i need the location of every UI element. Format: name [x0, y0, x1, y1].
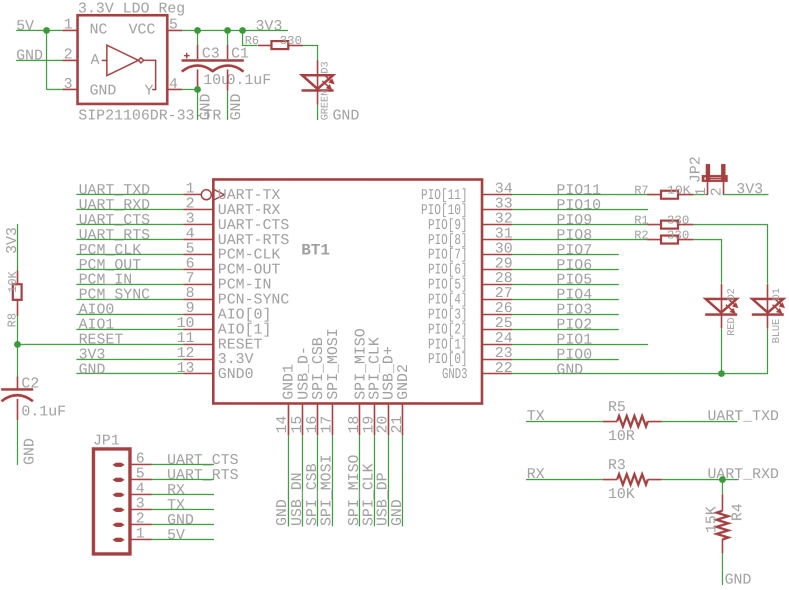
connector JP1 pin 1 stub	[130, 538, 152, 540]
svg-text:GND3: GND3	[442, 367, 468, 383]
capacitor C3 top plate	[182, 59, 214, 62]
IC BT1 pin 20 stub	[387, 403, 389, 435]
resistor R5 zigzag	[617, 416, 648, 426]
IC U3 regulator body	[78, 15, 168, 104]
wire 3V3 to R6	[243, 30, 258, 45]
svg-text:PIO2: PIO2	[556, 318, 592, 334]
svg-text:SPI_CSB: SPI_CSB	[305, 463, 321, 526]
svg-text:SPI_CSB: SPI_CSB	[311, 337, 327, 400]
IC BT1 pin 22 stub	[482, 373, 512, 375]
svg-text:5: 5	[186, 241, 195, 257]
svg-text:TX: TX	[527, 409, 545, 425]
capacitor C3 top lead	[197, 45, 199, 59]
LED D2 arrow 1	[728, 299, 735, 305]
svg-text:2: 2	[186, 196, 195, 212]
resistor R4 top lead	[721, 494, 723, 510]
svg-text:8: 8	[186, 286, 195, 302]
svg-text:UART_RXD: UART_RXD	[79, 198, 151, 214]
wire net SPI_CLK pin 19	[373, 435, 375, 526]
wire 5V to junction	[16, 29, 62, 31]
wire net PIO1 row 24	[512, 344, 648, 346]
svg-text:GND: GND	[22, 438, 38, 465]
wire C3 to GND	[197, 86, 199, 120]
capacitor C2 curved plate	[1, 395, 32, 401]
wire net GND pin 21	[401, 435, 403, 526]
resistor R8 top lead	[17, 270, 19, 284]
wire net PIO10 row 33	[512, 209, 648, 211]
svg-text:PCM_SYNC: PCM_SYNC	[79, 288, 151, 304]
svg-text:AIO[0]: AIO[0]	[218, 307, 272, 323]
IC BT1 pin 16 stub	[316, 403, 318, 435]
svg-text:USB_DN: USB_DN	[290, 472, 306, 526]
junction C1 top	[224, 27, 231, 34]
svg-text:3V3: 3V3	[736, 182, 763, 198]
wire net PCM_CLK	[76, 253, 183, 255]
svg-text:Y: Y	[145, 83, 154, 99]
junction R6 branch	[239, 27, 246, 34]
wire R6 to D3	[303, 45, 318, 60]
svg-text:0.1uF: 0.1uF	[21, 404, 66, 420]
wire net USB_DP pin 20	[387, 435, 389, 526]
resistor R7 body	[661, 191, 678, 199]
svg-text:PCM_OUT: PCM_OUT	[79, 258, 142, 274]
svg-text:GREEN: GREEN	[321, 90, 332, 121]
IC BT1 pin 1 clock mark	[213, 189, 224, 200]
svg-text:JP1: JP1	[93, 434, 120, 450]
IC U3 pin 2 stub	[63, 59, 78, 61]
wire net PIO4 row 27	[512, 299, 619, 301]
LED D2 bottom lead	[720, 314, 722, 328]
connector JP1 pad 1	[112, 538, 124, 542]
resistor R4 bottom lead	[721, 539, 723, 553]
wire C1 top	[227, 30, 229, 45]
IC BT1 pin 1 inverter circle	[201, 190, 211, 200]
svg-text:AIO0: AIO0	[79, 302, 115, 318]
capacitor C3 bottom lead	[197, 69, 199, 86]
svg-text:10K: 10K	[667, 184, 691, 198]
svg-text:AIO1: AIO1	[79, 317, 115, 333]
svg-text:PIO9: PIO9	[556, 213, 592, 229]
IC BT1 pin 6 stub	[183, 268, 213, 270]
wire net SPI_MOSI pin 17	[331, 435, 333, 526]
resistor R6 body	[271, 41, 288, 49]
svg-text:6: 6	[186, 256, 195, 272]
wire C2 to GND	[16, 420, 18, 465]
connector JP1 pad 5	[112, 478, 124, 482]
IC BT1 pin 19 stub	[373, 403, 375, 435]
svg-text:5V: 5V	[16, 19, 34, 35]
LED D2 top lead	[720, 284, 722, 299]
LED D1 arrow 2	[772, 305, 779, 311]
svg-text:PIO[1]: PIO[1]	[428, 337, 468, 353]
svg-text:3V3: 3V3	[5, 227, 21, 254]
IC BT1 pin 3 stub	[183, 223, 213, 225]
svg-text:R6: R6	[245, 34, 259, 48]
resistor R8 body	[13, 284, 22, 300]
svg-text:UART-RX: UART-RX	[218, 203, 281, 219]
svg-text:30: 30	[495, 241, 513, 257]
resistor R5 right lead	[648, 421, 662, 423]
svg-text:4: 4	[186, 226, 195, 242]
svg-text:GND: GND	[167, 513, 194, 529]
svg-text:PIO[8]: PIO[8]	[428, 233, 468, 249]
LED D3 triangle	[302, 75, 333, 89]
LED D2 cathode bar	[705, 313, 737, 316]
wire net AIO0	[76, 313, 183, 315]
wire net UART_CTS JP1	[152, 463, 214, 465]
svg-text:3V3: 3V3	[79, 347, 106, 363]
wire D3 to GND	[317, 104, 319, 120]
IC BT1 pin 30 stub	[482, 254, 512, 256]
wire net PIO0 row 23	[512, 359, 619, 361]
svg-text:22: 22	[495, 361, 513, 377]
IC U3 pin 5 stub	[167, 29, 182, 31]
junction 5V node	[43, 27, 50, 34]
wire net GND pin 14	[287, 435, 289, 526]
svg-text:PCM_IN: PCM_IN	[79, 273, 133, 289]
capacitor C1 curved plate	[212, 66, 243, 72]
IC BT1 pin 15 stub	[301, 403, 303, 435]
connector JP1 pin 3 stub	[130, 508, 152, 510]
svg-text:13: 13	[177, 361, 195, 377]
svg-text:UART_TXD: UART_TXD	[707, 409, 779, 425]
svg-text:R1: R1	[634, 214, 648, 228]
svg-text:A: A	[91, 53, 100, 69]
wire net GND JP1	[152, 523, 214, 525]
wire net SPI_CSB pin 16	[316, 435, 318, 526]
capacitor C2 top lead	[16, 376, 18, 388]
wire net PIO6 row 29	[512, 269, 619, 271]
svg-text:PCM_CLK: PCM_CLK	[79, 243, 142, 259]
wire net USB_DN pin 15	[301, 435, 303, 526]
svg-text:330: 330	[280, 34, 302, 48]
svg-text:RESET: RESET	[218, 337, 263, 353]
svg-text:25: 25	[495, 316, 513, 332]
IC BT1 pin 1 stub	[183, 193, 201, 195]
connector JP2 pad 2	[721, 164, 725, 182]
LED D2 arrow 2	[726, 305, 733, 311]
connector JP1 pin 6 stub	[130, 463, 152, 465]
resistor R7 left lead	[647, 194, 661, 196]
junction UART_RXD node	[719, 476, 726, 483]
wire net UART_RTS	[76, 238, 183, 240]
LED D1 bottom lead	[766, 314, 768, 328]
svg-text:16: 16	[305, 416, 321, 434]
svg-text:27: 27	[495, 286, 513, 302]
svg-text:PIO11: PIO11	[556, 183, 601, 199]
svg-text:RX: RX	[167, 483, 185, 499]
svg-text:5: 5	[136, 466, 145, 482]
svg-text:4: 4	[136, 481, 145, 497]
wire net SPI_MISO pin 18	[358, 435, 360, 526]
svg-text:D1: D1	[772, 288, 783, 300]
svg-text:PIO10: PIO10	[556, 198, 601, 214]
IC BT1 pin 25 stub	[482, 329, 512, 331]
IC U3 pin 4 stub	[167, 88, 182, 90]
resistor R4 zigzag	[717, 511, 729, 540]
capacitor C2 bottom lead	[16, 399, 18, 420]
svg-text:GND: GND	[199, 93, 215, 120]
svg-text:PIO7: PIO7	[556, 243, 592, 259]
IC BT1 pin 4 stub	[183, 238, 213, 240]
svg-text:15: 15	[290, 416, 306, 434]
svg-text:3V3: 3V3	[256, 19, 283, 35]
LED D1 arrow 1	[775, 299, 782, 305]
junction C3 top	[194, 27, 201, 34]
IC BT1 pin 32 stub	[482, 224, 512, 226]
svg-text:9: 9	[186, 301, 195, 317]
svg-text:0.1uF: 0.1uF	[227, 73, 272, 89]
resistor R8 bottom lead	[16, 300, 18, 316]
svg-text:PCM-CLK: PCM-CLK	[218, 248, 281, 264]
IC BT1 pin 10 stub	[183, 328, 213, 330]
svg-text:33: 33	[495, 197, 513, 213]
svg-text:R7: R7	[634, 184, 648, 198]
resistor R1 body	[661, 221, 678, 229]
svg-text:10: 10	[177, 316, 195, 332]
wire net PCM_OUT	[76, 268, 183, 270]
LED D3 arrow 2	[322, 81, 329, 87]
svg-text:24: 24	[495, 331, 513, 347]
wire R3 to UART_RXD	[661, 479, 738, 481]
svg-text:D3: D3	[321, 61, 332, 73]
svg-text:PIO5: PIO5	[556, 273, 592, 289]
svg-text:PIO[3]: PIO[3]	[428, 307, 468, 323]
wire net PIO9 row 32	[512, 224, 647, 226]
svg-text:VCC: VCC	[129, 22, 156, 38]
svg-text:RED: RED	[727, 317, 738, 335]
svg-text:UART_CTS: UART_CTS	[79, 213, 151, 229]
svg-text:PCM-IN: PCM-IN	[218, 278, 272, 294]
IC BT1 pin 29 stub	[482, 269, 512, 271]
svg-text:GND0: GND0	[218, 367, 254, 383]
svg-text:BT1: BT1	[301, 241, 330, 259]
LED D1 top lead	[766, 284, 768, 299]
wire TX to R5	[526, 421, 603, 423]
IC BT1 pin 12 stub	[183, 358, 213, 360]
svg-text:12: 12	[177, 346, 195, 362]
wire net 3V3	[76, 358, 183, 360]
svg-text:PIO[2]: PIO[2]	[428, 322, 468, 338]
svg-text:UART-RTS: UART-RTS	[218, 233, 290, 249]
svg-text:BLUE: BLUE	[772, 319, 783, 343]
wire net PIO11 row 34	[512, 194, 647, 196]
capacitor C3 plus sign	[184, 53, 190, 59]
IC BT1 pin 27 stub	[482, 299, 512, 301]
junction C3 bottom	[194, 86, 201, 93]
LED D3 top lead	[317, 60, 319, 75]
LED D1 triangle	[752, 299, 783, 313]
svg-text:32: 32	[495, 211, 513, 227]
resistor R2 right lead	[678, 239, 693, 241]
svg-text:10K: 10K	[6, 271, 20, 293]
IC BT1 pin 33 stub	[482, 209, 512, 211]
wire net PIO3 row 26	[512, 314, 619, 316]
IC U3 output path to Y	[144, 60, 156, 89]
wire net UART_CTS	[76, 223, 183, 225]
wire R8 to RESET junction	[16, 316, 18, 344]
connector JP2 pad link	[710, 178, 721, 180]
IC BT1 body	[213, 179, 482, 403]
svg-text:29: 29	[495, 256, 513, 272]
connector JP2 bar	[702, 175, 728, 182]
wire D1 to GND row	[766, 328, 768, 374]
svg-text:4: 4	[169, 77, 178, 93]
svg-text:PCM-OUT: PCM-OUT	[218, 263, 281, 279]
svg-text:330: 330	[667, 228, 689, 242]
svg-text:PIO[10]: PIO[10]	[421, 203, 468, 219]
wire net PCM_IN	[76, 283, 183, 285]
IC BT1 pin 21 stub	[401, 404, 403, 436]
wire R1 to D1	[694, 225, 768, 284]
connector JP1 pin 4 stub	[130, 493, 152, 495]
IC BT1 pin 11 stub	[183, 343, 213, 345]
wire net GND row 22	[512, 373, 768, 375]
capacitor C1 top plate	[212, 59, 244, 62]
svg-text:R3: R3	[608, 458, 626, 474]
svg-text:23: 23	[495, 346, 513, 362]
svg-text:PIO[11]: PIO[11]	[421, 188, 468, 204]
IC BT1 pin 18 stub	[358, 403, 360, 435]
svg-text:GND: GND	[16, 49, 43, 65]
resistor R1 left lead	[647, 224, 661, 226]
svg-text:1: 1	[186, 182, 195, 198]
IC BT1 pin 28 stub	[482, 284, 512, 286]
svg-text:UART-CTS: UART-CTS	[218, 218, 290, 234]
svg-text:R4: R4	[730, 503, 746, 521]
connector JP1 pad 3	[112, 508, 124, 512]
IC BT1 pin 9 stub	[183, 313, 213, 315]
svg-text:UART_CTS: UART_CTS	[167, 453, 239, 469]
wire net UART_RTS JP1	[152, 478, 214, 480]
wire R7 to JP2 pin 1	[693, 194, 708, 196]
svg-text:UART-TX: UART-TX	[218, 188, 281, 204]
wire net UART_RXD	[76, 208, 183, 210]
resistor R6 right lead	[288, 44, 302, 46]
connector JP1 body	[93, 449, 130, 554]
wire 3V3 to R8	[17, 224, 19, 271]
svg-text:GND: GND	[556, 362, 583, 378]
svg-text:1: 1	[694, 187, 710, 196]
svg-text:21: 21	[390, 416, 406, 434]
svg-text:PIO[4]: PIO[4]	[428, 293, 468, 309]
svg-text:UART_RXD: UART_RXD	[707, 467, 779, 483]
svg-text:GND: GND	[333, 108, 360, 124]
IC BT1 pin 26 stub	[482, 314, 512, 316]
wire UART_RXD to R4	[721, 479, 723, 494]
svg-text:PIO4: PIO4	[556, 288, 592, 304]
wire net RX JP1	[152, 493, 214, 495]
IC U3 pin 1 stub	[63, 29, 78, 31]
svg-text:PIO8: PIO8	[556, 228, 592, 244]
resistor R3 right lead	[648, 479, 662, 481]
svg-text:2: 2	[710, 187, 726, 196]
svg-text:PIO6: PIO6	[556, 258, 592, 274]
resistor R6 left lead	[258, 44, 272, 46]
wire 3V3 rail	[182, 29, 288, 31]
wire net GND	[76, 372, 183, 374]
capacitor C2 top plate	[1, 388, 33, 391]
svg-text:15K: 15K	[704, 506, 720, 533]
wire C3 top	[197, 30, 199, 45]
svg-text:PIO1: PIO1	[556, 332, 592, 348]
wire GND to pin 2	[16, 59, 62, 61]
connector JP1 pad 6	[112, 463, 124, 467]
IC BT1 pin 8 stub	[183, 298, 213, 300]
svg-text:5V: 5V	[167, 528, 185, 544]
svg-text:2: 2	[136, 511, 145, 527]
connector JP2 pad 1	[706, 164, 710, 182]
wire RESET junction to C2	[16, 344, 18, 376]
LED D1 cathode bar	[752, 313, 784, 316]
svg-text:JP2: JP2	[689, 156, 705, 183]
IC BT1 pin 17 stub	[331, 403, 333, 435]
resistor R1 right lead	[678, 224, 693, 226]
svg-text:PCN-SYNC: PCN-SYNC	[218, 292, 290, 308]
svg-text:UART_RTS: UART_RTS	[79, 228, 151, 244]
wire net AIO1	[76, 328, 183, 330]
svg-text:C1: C1	[231, 46, 249, 62]
svg-text:10R: 10R	[608, 429, 635, 445]
IC BT1 pin 14 stub	[287, 403, 289, 435]
svg-text:11: 11	[177, 331, 195, 347]
svg-text:10K: 10K	[608, 487, 635, 503]
svg-text:330: 330	[667, 214, 689, 228]
svg-text:31: 31	[495, 226, 513, 242]
IC BT1 pin 24 stub	[482, 344, 512, 346]
junction RESET node	[14, 341, 21, 348]
svg-text:26: 26	[495, 301, 513, 317]
resistor R3 left lead	[603, 479, 617, 481]
wire to pin 3	[47, 88, 63, 90]
svg-text:SPI_MOSI: SPI_MOSI	[326, 328, 342, 400]
IC BT1 pin 7 stub	[183, 283, 213, 285]
svg-text:GND: GND	[79, 362, 106, 378]
wire RX to R3	[526, 479, 603, 481]
svg-text:PIO[9]: PIO[9]	[428, 218, 468, 234]
svg-text:PIO[7]: PIO[7]	[428, 248, 468, 264]
svg-text:RX: RX	[527, 467, 545, 483]
svg-text:RESET: RESET	[79, 332, 124, 348]
connector JP2 pin 2 line	[723, 182, 725, 195]
svg-text:7: 7	[186, 271, 195, 287]
svg-text:PIO[6]: PIO[6]	[428, 263, 468, 279]
svg-text:GND1: GND1	[281, 364, 297, 400]
LED D1 center lead	[766, 299, 768, 313]
svg-text:GND: GND	[390, 499, 406, 526]
svg-text:PIO[0]: PIO[0]	[428, 352, 468, 368]
wire net RESET	[17, 343, 183, 345]
LED D3 cathode bar	[302, 89, 334, 92]
wire 5V down to pin 3	[46, 30, 48, 90]
wire R4 to GND	[721, 553, 723, 585]
svg-text:AIO[1]: AIO[1]	[218, 322, 272, 338]
resistor R2 left lead	[647, 239, 661, 241]
wire net PIO5 row 28	[512, 284, 619, 286]
svg-text:1: 1	[136, 526, 145, 542]
svg-text:17: 17	[320, 416, 336, 434]
svg-text:C2: C2	[21, 376, 39, 392]
IC BT1 pin 5 stub	[183, 253, 213, 255]
LED D2 triangle	[706, 299, 737, 313]
junction D2 GND	[718, 370, 725, 377]
wire net TX JP1	[152, 508, 214, 510]
wire net PIO2 row 25	[512, 329, 619, 331]
wire net PIO8 row 31	[512, 239, 647, 241]
IC BT1 pin 34 stub	[482, 194, 512, 196]
IC BT1 pin 2 stub	[183, 208, 213, 210]
resistor R7 right lead	[678, 194, 693, 196]
